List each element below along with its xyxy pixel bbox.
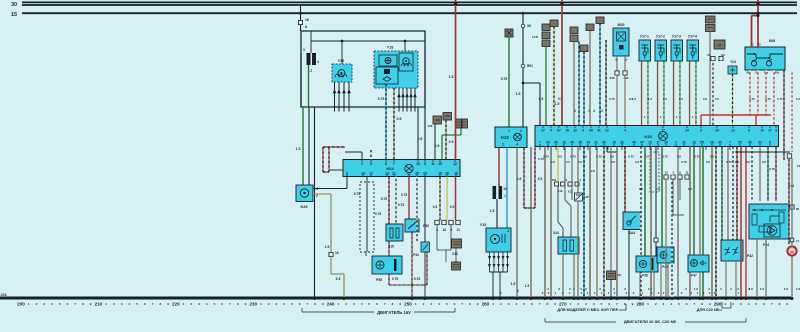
- branch to K33 pin 1: [523, 82, 540, 84]
- svg-text:15: 15: [438, 162, 442, 166]
- svg-text:У17-4: У17-4: [688, 35, 697, 39]
- rail 30 (double line): [22, 1, 797, 3]
- wire K20 pin4 to ground: [516, 148, 518, 299]
- main control unit K33: [535, 126, 779, 147]
- wire green to P47: [693, 147, 695, 256]
- svg-text:50: 50: [554, 141, 558, 145]
- svg-text:6: 6: [67, 302, 69, 306]
- svg-text:4: 4: [51, 302, 53, 306]
- svg-text:22: 22: [605, 129, 609, 133]
- svg-text:R61: R61: [527, 64, 533, 68]
- svg-text:4: 4: [515, 302, 517, 306]
- connectors X13 X14: [568, 182, 572, 186]
- svg-text:2: 2: [500, 302, 502, 306]
- sensor P38: [636, 256, 658, 272]
- svg-text:1: 1: [492, 302, 494, 306]
- wires K33 to P44: [751, 147, 753, 202]
- svg-text:39: 39: [664, 141, 668, 145]
- svg-text:0.5: 0.5: [435, 144, 440, 148]
- wire tan 597: [596, 147, 598, 299]
- svg-text:2: 2: [601, 109, 603, 113]
- svg-text:3: 3: [663, 302, 665, 306]
- idle actuator Y18: [374, 51, 418, 88]
- svg-text:116: 116: [428, 124, 433, 128]
- svg-text:30: 30: [11, 2, 17, 8]
- svg-text:0.75: 0.75: [398, 203, 404, 207]
- svg-text:27: 27: [541, 129, 545, 133]
- connector square right: [790, 205, 794, 209]
- svg-text:6: 6: [454, 302, 456, 306]
- svg-text:7: 7: [393, 162, 395, 166]
- svg-text:9: 9: [322, 302, 324, 306]
- svg-text:0.75: 0.75: [765, 97, 771, 101]
- red feed to K68 pin 30: [757, 0, 759, 47]
- svg-text:1: 1: [508, 129, 510, 133]
- wire grey 531: [530, 147, 532, 299]
- injector wires: [641, 61, 643, 125]
- svg-text:7: 7: [616, 302, 618, 306]
- svg-text:3: 3: [585, 302, 587, 306]
- fuse: [493, 186, 497, 199]
- svg-text:0.75: 0.75: [662, 155, 668, 159]
- svg-text:4: 4: [748, 302, 750, 306]
- svg-text:260: 260: [482, 302, 490, 307]
- ignition coil L1: [307, 53, 311, 65]
- wire grey 684: [689, 147, 691, 299]
- ignition module K29: [296, 185, 313, 202]
- sensor P46: [657, 247, 674, 263]
- svg-text:0.5: 0.5: [578, 160, 583, 164]
- svg-text:У17-1: У17-1: [640, 35, 649, 39]
- svg-text:9: 9: [90, 302, 92, 306]
- svg-text:0.75: 0.75: [681, 160, 687, 164]
- svg-text:2: 2: [423, 302, 425, 306]
- wire K29 pin2 down to ground rail: [313, 193, 331, 195]
- svg-text:0.5: 0.5: [538, 177, 543, 181]
- svg-text:RT: RT: [718, 44, 722, 48]
- svg-text:12: 12: [453, 162, 457, 166]
- wire grey 712: [711, 147, 713, 299]
- svg-text:У61: У61: [552, 178, 557, 182]
- svg-text:9: 9: [477, 302, 479, 306]
- svg-text:Y33: Y33: [480, 223, 486, 227]
- svg-text:Y30: Y30: [338, 59, 344, 63]
- wire red 746: [745, 147, 747, 299]
- svg-text:2: 2: [732, 302, 734, 306]
- svg-text:42: 42: [748, 141, 752, 145]
- svg-text:P32: P32: [747, 254, 753, 258]
- svg-text:0.5: 0.5: [450, 205, 455, 209]
- connector X30 grid: [456, 119, 462, 128]
- K64 pin ticks: [361, 160, 363, 163]
- wire K64 pin20 to connector: [446, 177, 448, 221]
- svg-text:6: 6: [686, 302, 688, 306]
- svg-text:1.5: 1.5: [325, 245, 330, 249]
- svg-text:0.5: 0.5: [517, 177, 522, 181]
- svg-text:0.5: 0.5: [746, 160, 751, 164]
- svg-text:3: 3: [353, 302, 355, 306]
- svg-text:16: 16: [305, 18, 309, 22]
- shield bundle to K64: [322, 147, 324, 172]
- svg-text:10: 10: [416, 162, 420, 166]
- svg-text:14: 14: [586, 141, 590, 145]
- switch SA4: [624, 147, 626, 213]
- svg-text:7: 7: [74, 302, 76, 306]
- svg-text:1.5: 1.5: [735, 160, 740, 164]
- svg-text:240: 240: [327, 302, 335, 307]
- wire grey 617: [616, 147, 618, 299]
- svg-text:0.75: 0.75: [628, 155, 634, 159]
- wire green with connectors to K33: [542, 24, 550, 31]
- svg-text:P47: P47: [691, 274, 697, 278]
- svg-text:4: 4: [361, 302, 363, 306]
- wire grey to K33: [589, 30, 591, 125]
- injector wires: [657, 61, 659, 125]
- wire grey 551: [550, 147, 552, 299]
- svg-text:7: 7: [307, 302, 309, 306]
- connector boxes column a: [570, 27, 578, 34]
- svg-text:0.5: 0.5: [677, 155, 681, 159]
- svg-text:8: 8: [392, 302, 394, 306]
- svg-text:1: 1: [724, 302, 726, 306]
- svg-text:4: 4: [206, 302, 208, 306]
- svg-text:1.5: 1.5: [663, 97, 668, 101]
- svg-text:6: 6: [376, 302, 378, 306]
- K33 pin ticks: [542, 126, 544, 129]
- svg-text:9: 9: [245, 302, 247, 306]
- svg-text:LCD: LCD: [532, 35, 539, 39]
- svg-text:X13: X13: [568, 190, 573, 194]
- control unit K64: [343, 160, 460, 177]
- svg-text:17: 17: [656, 141, 660, 145]
- svg-text:9: 9: [399, 302, 401, 306]
- svg-text:0.5: 0.5: [645, 155, 649, 159]
- wire K64 pin25: [416, 177, 418, 244]
- svg-text:86: 86: [796, 207, 800, 211]
- svg-text:0.75: 0.75: [694, 155, 700, 159]
- wire Y18 to K64 pin 7: [393, 88, 395, 160]
- svg-text:X9: X9: [707, 53, 711, 57]
- wire K64 pin19 to connector: [439, 177, 441, 221]
- svg-text:5: 5: [214, 302, 216, 306]
- wire yellow-black to K33: [550, 20, 558, 27]
- svg-text:2: 2: [577, 302, 579, 306]
- wire grey 572: [571, 147, 573, 201]
- svg-text:4: 4: [516, 143, 518, 147]
- svg-text:5: 5: [523, 302, 525, 306]
- svg-text:X36: X36: [610, 76, 615, 80]
- svg-text:0.75: 0.75: [414, 277, 420, 281]
- wire K64 pin16: [455, 177, 457, 221]
- svg-text:0.5: 0.5: [539, 97, 544, 101]
- svg-text:1: 1: [570, 302, 572, 306]
- svg-text:2: 2: [113, 302, 115, 306]
- red-white wires below K68: [749, 70, 751, 115]
- sensor box above pin 11: [433, 116, 442, 124]
- wire grey 678: [677, 147, 679, 176]
- svg-text:8: 8: [624, 302, 626, 306]
- svg-text:3: 3: [430, 302, 432, 306]
- svg-text:8: 8: [82, 302, 84, 306]
- solenoid Y30: [332, 64, 352, 82]
- svg-text:9: 9: [582, 129, 584, 133]
- connector boxes column b: [580, 45, 588, 52]
- svg-text:X19: X19: [624, 76, 629, 80]
- wire green to P46: [661, 147, 663, 248]
- svg-text:9: 9: [709, 302, 711, 306]
- svg-text:2: 2: [502, 143, 504, 147]
- svg-text:32: 32: [620, 141, 624, 145]
- svg-text:4: 4: [317, 60, 319, 64]
- svg-text:1: 1: [504, 194, 506, 198]
- wire blue-black from K34 box: [596, 17, 604, 24]
- svg-text:49: 49: [632, 141, 636, 145]
- svg-text:X44: X44: [553, 231, 559, 235]
- svg-text:0.75: 0.75: [543, 155, 549, 159]
- shield stub to ground: [411, 285, 413, 299]
- wire K20 to Y33 pin4: [506, 148, 508, 229]
- svg-text:4: 4: [670, 302, 672, 306]
- svg-text:5: 5: [291, 302, 293, 306]
- sensor box above pin 15: [443, 113, 452, 121]
- inner bus wire: [311, 40, 425, 42]
- svg-text:220: 220: [172, 302, 180, 307]
- svg-text:1: 1: [303, 48, 305, 52]
- wire grey-black: [605, 40, 607, 125]
- svg-text:0.75: 0.75: [609, 97, 615, 101]
- svg-text:X13: X13: [452, 252, 458, 256]
- wire Y18 to K64 pin 6: [385, 84, 387, 160]
- svg-text:9: 9: [786, 302, 788, 306]
- wire grey 717: [715, 147, 717, 299]
- svg-text:4: 4: [593, 302, 595, 306]
- spark gap arrows group 2: [398, 88, 400, 107]
- svg-text:11: 11: [686, 171, 689, 175]
- svg-text:1.5: 1.5: [760, 287, 765, 291]
- svg-text:7: 7: [461, 302, 463, 306]
- injector wires: [673, 61, 675, 125]
- svg-text:10: 10: [612, 141, 616, 145]
- svg-text:1.5: 1.5: [632, 97, 637, 101]
- svg-text:31: 31: [682, 141, 686, 145]
- svg-text:4: 4: [283, 302, 285, 306]
- svg-text:18: 18: [442, 228, 446, 232]
- bracket engine label left: [302, 311, 374, 313]
- ignition unit box outline: [301, 31, 425, 107]
- svg-text:15: 15: [578, 141, 582, 145]
- svg-text:22: 22: [573, 129, 577, 133]
- svg-text:1.5: 1.5: [796, 97, 800, 101]
- svg-text:4: 4: [128, 302, 130, 306]
- svg-text:P55: P55: [376, 278, 382, 282]
- shielded return loop: [388, 241, 390, 285]
- svg-text:8: 8: [701, 302, 703, 306]
- svg-text:0.5: 0.5: [639, 187, 644, 191]
- wires M33 to connectors: [616, 56, 618, 71]
- svg-text:2: 2: [190, 302, 192, 306]
- right edge striped wires: [783, 70, 785, 160]
- svg-text:1.5: 1.5: [555, 102, 560, 106]
- svg-text:4: 4: [361, 162, 363, 166]
- svg-text:250: 250: [404, 302, 412, 307]
- svg-text:41: 41: [597, 129, 601, 133]
- wire tan to K64: [445, 120, 447, 160]
- wire green L1 to K29: [302, 107, 304, 185]
- svg-text:28: 28: [710, 141, 714, 145]
- svg-text:21: 21: [594, 141, 598, 145]
- svg-text:13: 13: [562, 141, 566, 145]
- svg-text:24: 24: [685, 129, 689, 133]
- injector unit Y33: [486, 228, 511, 252]
- svg-text:0.5: 0.5: [433, 205, 438, 209]
- svg-text:2: 2: [36, 302, 38, 306]
- svg-text:0.75: 0.75: [401, 193, 407, 197]
- svg-text:10: 10: [760, 129, 764, 133]
- svg-text:201: 201: [1, 293, 7, 297]
- svg-text:7: 7: [729, 141, 731, 145]
- diode P34: [421, 242, 430, 252]
- svg-text:K33: K33: [644, 134, 652, 139]
- wire grey 651: [650, 147, 652, 299]
- sensor P30: [408, 177, 410, 220]
- connector grid lower: [452, 262, 461, 270]
- wire yellow to X61: [557, 147, 559, 183]
- svg-text:17: 17: [796, 239, 800, 243]
- label engines 20SE C20NE: [545, 321, 616, 323]
- connector pin squares row: [664, 175, 668, 179]
- svg-text:P46: P46: [662, 265, 668, 269]
- svg-text:0.5: 0.5: [611, 160, 616, 164]
- svg-text:1.5: 1.5: [490, 209, 495, 213]
- svg-text:1.5: 1.5: [296, 147, 301, 151]
- black link right: [735, 151, 790, 153]
- svg-text:P34: P34: [413, 253, 419, 257]
- svg-text:22: 22: [731, 129, 735, 133]
- svg-text:210: 210: [95, 302, 103, 307]
- svg-text:1.5: 1.5: [525, 284, 530, 288]
- svg-text:55: 55: [700, 141, 704, 145]
- svg-text:0.75: 0.75: [726, 160, 732, 164]
- svg-text:K29: K29: [301, 205, 308, 209]
- svg-text:1: 1: [28, 302, 30, 306]
- svg-text:270: 270: [559, 302, 567, 307]
- svg-text:8: 8: [769, 141, 771, 145]
- svg-text:2: 2: [675, 141, 677, 145]
- svg-text:0.5: 0.5: [397, 117, 402, 121]
- connector pins row X13: [435, 220, 439, 224]
- black link wire: [606, 147, 608, 153]
- svg-text:9: 9: [550, 129, 552, 133]
- svg-text:17: 17: [768, 129, 772, 133]
- wire K64 pin13 to P13: [388, 177, 390, 225]
- svg-text:0.75: 0.75: [381, 197, 387, 201]
- pressure sensor P55: [372, 256, 402, 274]
- svg-text:7: 7: [539, 302, 541, 306]
- wire grey 700: [699, 147, 701, 256]
- svg-text:2: 2: [517, 289, 519, 293]
- svg-text:1.5: 1.5: [796, 287, 800, 291]
- svg-text:0.75: 0.75: [354, 192, 360, 196]
- svg-text:47: 47: [640, 141, 644, 145]
- svg-text:1: 1: [183, 302, 185, 306]
- svg-text:ДЛЯ МОДЕЛЕЙ С МЕХ. КОР. ПЕР.: ДЛЯ МОДЕЛЕЙ С МЕХ. КОР. ПЕР.: [557, 308, 618, 312]
- svg-text:1.5: 1.5: [516, 92, 521, 96]
- wire K64 pin14/17 shielded pair: [360, 182, 374, 252]
- svg-text:28: 28: [617, 273, 621, 277]
- svg-text:8: 8: [305, 25, 307, 29]
- svg-text:0.75: 0.75: [378, 97, 385, 101]
- svg-text:6: 6: [221, 302, 223, 306]
- svg-text:25: 25: [738, 141, 742, 145]
- connector grid E3: [452, 239, 462, 248]
- wire green-black to P32: [721, 147, 723, 241]
- wire green to P38: [644, 147, 646, 257]
- svg-text:8: 8: [469, 302, 471, 306]
- svg-text:5: 5: [755, 302, 757, 306]
- svg-text:0.75: 0.75: [501, 77, 508, 81]
- svg-text:0.5: 0.5: [610, 155, 614, 159]
- svg-text:230: 230: [249, 302, 257, 307]
- svg-text:2: 2: [268, 302, 270, 306]
- svg-text:9: 9: [167, 302, 169, 306]
- svg-text:7: 7: [384, 302, 386, 306]
- svg-text:6: 6: [299, 302, 301, 306]
- connector X6: [298, 20, 302, 24]
- svg-text:4: 4: [438, 302, 440, 306]
- svg-text:ДЛЯ C20 NE: ДЛЯ C20 NE: [697, 308, 720, 312]
- wire grey 565 to X44: [564, 147, 566, 201]
- svg-text:5: 5: [59, 302, 61, 306]
- svg-text:1.5: 1.5: [679, 97, 684, 101]
- svg-text:11: 11: [431, 162, 435, 166]
- svg-text:0.5: 0.5: [715, 97, 720, 101]
- knock sensor shielded loop: [523, 148, 525, 209]
- wire rail15 to K20 pin 2: [522, 13, 524, 127]
- svg-text:1: 1: [415, 302, 417, 306]
- svg-text:8: 8: [159, 302, 161, 306]
- wire blue-black pair: [578, 42, 580, 126]
- svg-text:6: 6: [608, 302, 610, 306]
- svg-text:ДВИГАТЕЛЬ 16V: ДВИГАТЕЛЬ 16V: [377, 310, 411, 315]
- svg-text:X6: X6: [527, 24, 531, 28]
- svg-text:5: 5: [601, 302, 603, 306]
- svg-text:6: 6: [385, 162, 387, 166]
- svg-text:0.75: 0.75: [769, 167, 775, 171]
- svg-text:P30: P30: [423, 224, 429, 228]
- svg-text:M: M: [791, 251, 794, 255]
- Y33 ground prongs: [489, 252, 491, 272]
- svg-text:0.5: 0.5: [566, 160, 571, 164]
- wire fuse to Y33: [496, 199, 498, 228]
- svg-text:2: 2: [520, 129, 522, 133]
- wire grey 584: [583, 147, 585, 299]
- svg-text:8: 8: [779, 302, 781, 306]
- svg-text:0.5: 0.5: [558, 155, 562, 159]
- svg-text:7: 7: [694, 302, 696, 306]
- svg-text:9: 9: [632, 302, 634, 306]
- svg-text:35: 35: [718, 141, 722, 145]
- red bus to K33: [701, 114, 771, 116]
- svg-text:8: 8: [546, 302, 548, 306]
- svg-text:1: 1: [647, 302, 649, 306]
- wire to K64 pin 10: [417, 107, 419, 160]
- rail 15: [22, 12, 797, 14]
- svg-text:K20: K20: [501, 135, 509, 140]
- relay K20: [495, 127, 527, 148]
- wire from rail 30 to connector X6: [300, 4, 302, 20]
- svg-text:K68: K68: [769, 39, 776, 43]
- svg-text:0.5: 0.5: [449, 140, 454, 144]
